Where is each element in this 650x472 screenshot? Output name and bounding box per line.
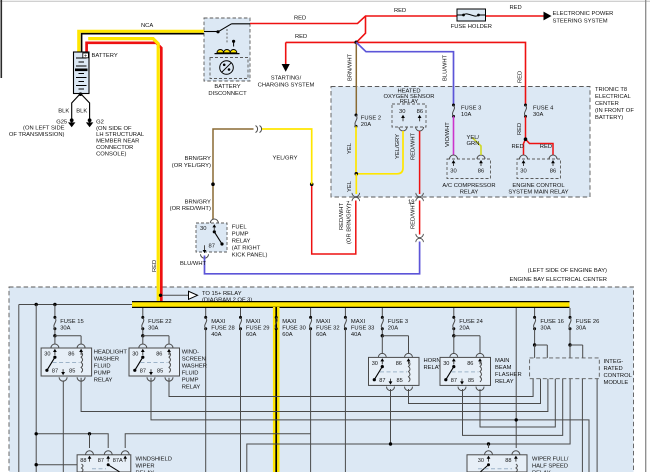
wire hw87 down <box>62 381 64 472</box>
svg-text:PUMP: PUMP <box>182 378 199 384</box>
svg-text:60A: 60A <box>316 332 326 338</box>
svg-text:KICK PANEL): KICK PANEL) <box>232 253 268 259</box>
wire icm pin7 down <box>581 379 583 472</box>
svg-text:RED: RED <box>152 260 158 272</box>
svg-text:87: 87 <box>52 368 58 374</box>
svg-text:YEL: YEL <box>347 180 353 192</box>
svg-text:30: 30 <box>372 361 378 367</box>
svg-text:BLU/WHT: BLU/WHT <box>443 54 449 81</box>
svg-text:HALF SPEED: HALF SPEED <box>532 463 568 469</box>
fuse maxi F28 40A <box>204 308 235 472</box>
node yel junction <box>355 172 359 176</box>
wire windshield wiper feed rail <box>36 434 108 448</box>
svg-text:30A: 30A <box>60 325 70 331</box>
svg-text:HEADLIGHT: HEADLIGHT <box>94 350 128 356</box>
svg-text:MAXI: MAXI <box>211 319 226 325</box>
svg-text:ELECTRONIC POWER: ELECTRONIC POWER <box>553 11 614 17</box>
svg-text:RED: RED <box>394 8 406 14</box>
svg-text:(OR BRN/GRY): (OR BRN/GRY) <box>347 203 353 244</box>
svg-text:YEL/GRY: YEL/GRY <box>272 155 297 161</box>
wire NCA yellow battery to disconnect <box>79 31 204 52</box>
svg-text:30: 30 <box>399 109 405 115</box>
svg-text:(OR RED/WHT): (OR RED/WHT) <box>170 206 211 212</box>
relay K3 horn relay <box>381 334 384 337</box>
svg-text:SYSTEM MAIN RELAY: SYSTEM MAIN RELAY <box>508 190 568 196</box>
svg-text:86: 86 <box>156 352 162 358</box>
node wiper30 junction <box>487 442 490 445</box>
battery disconnect switch <box>204 31 217 33</box>
svg-text:CONSOLE): CONSOLE) <box>96 151 126 157</box>
svg-text:87: 87 <box>451 378 457 384</box>
fuse F2 20A <box>355 114 358 117</box>
svg-text:FUSE 26: FUSE 26 <box>576 319 600 325</box>
svg-text:FUSE 3: FUSE 3 <box>461 106 481 112</box>
svg-text:20A: 20A <box>459 325 469 331</box>
bus 30-supply yellow <box>132 301 570 308</box>
svg-text:87: 87 <box>140 368 146 374</box>
svg-text:86: 86 <box>467 361 473 367</box>
battery disconnect motor box <box>210 58 248 79</box>
svg-text:87: 87 <box>98 458 104 464</box>
svg-text:60A: 60A <box>282 332 292 338</box>
fuse F15 30A <box>53 305 83 336</box>
battery plus terminal <box>83 53 89 58</box>
engine bay electrical center box <box>9 287 634 472</box>
wire horn87 rail to icm pin6 <box>247 379 570 472</box>
connector inline brn/gry-yel/gry <box>256 126 258 133</box>
svg-text:RELAY: RELAY <box>495 379 514 385</box>
relay U-hosr heated oxygen sensor relay box <box>392 104 426 127</box>
svg-text:30: 30 <box>478 458 484 464</box>
relay U-ecsm engine control system main relay terminals <box>517 159 561 179</box>
ground G2 <box>88 118 92 122</box>
node bus feed fuse15 <box>53 303 56 306</box>
svg-text:DISCONNECT: DISCONNECT <box>208 91 247 97</box>
svg-text:(AT RIGHT: (AT RIGHT <box>232 246 261 252</box>
relay K1 headlight washer fluid pump relay <box>53 334 56 337</box>
wire ww85 to icm pin1 <box>169 378 533 397</box>
svg-text:TO 15+ RELAY: TO 15+ RELAY <box>202 291 242 297</box>
svg-text:86: 86 <box>550 169 556 175</box>
fuse F22 30A <box>141 308 171 336</box>
svg-text:30: 30 <box>443 361 449 367</box>
wire red junction riser <box>356 16 365 42</box>
svg-text:30: 30 <box>450 169 456 175</box>
svg-text:40A: 40A <box>211 332 221 338</box>
svg-text:YEL: YEL <box>347 142 353 154</box>
svg-text:FUSE HOLDER: FUSE HOLDER <box>451 24 492 30</box>
svg-text:WIPER FULL/: WIPER FULL/ <box>532 456 569 462</box>
svg-text:FUSE 28: FUSE 28 <box>211 325 235 331</box>
svg-text:30: 30 <box>200 226 206 232</box>
svg-text:BRN/GRY: BRN/GRY <box>185 156 211 162</box>
wire second rail down to wiper relay net <box>35 305 37 472</box>
wire horn87 down <box>390 389 392 444</box>
svg-text:HORN: HORN <box>424 358 441 364</box>
svg-text:FLUID: FLUID <box>94 364 111 370</box>
relay U-ac a/c compressor relay terminals <box>447 159 491 179</box>
wire bus to wiper relay 88 <box>515 308 517 448</box>
svg-text:85: 85 <box>157 368 163 374</box>
wire red battery feed down to engine bay bus <box>87 43 162 306</box>
fuse maxi F29 60A <box>239 308 270 472</box>
wire yel/gry hosr 30 to yel junction <box>356 131 403 174</box>
svg-text:FLASHER: FLASHER <box>495 372 522 378</box>
wire red/wht pin7 down and left <box>312 184 356 254</box>
svg-text:RED: RED <box>518 71 524 83</box>
battery disconnect motor <box>220 61 234 75</box>
svg-text:MAXI: MAXI <box>351 319 366 325</box>
svg-text:BATTERY: BATTERY <box>214 84 240 90</box>
svg-text:SCREEN: SCREEN <box>182 357 206 363</box>
wire yellow maxi fuse 30 feed down <box>273 307 280 472</box>
wire mb87 to icm pin5 <box>463 379 563 436</box>
svg-text:BRN/GRY: BRN/GRY <box>185 199 211 205</box>
relay K6 wiper full/half speed relay <box>467 455 527 472</box>
svg-text:RELAY: RELAY <box>424 365 443 371</box>
svg-text:RED/WHT: RED/WHT <box>339 202 345 230</box>
wire NCA black stripe <box>82 34 204 53</box>
svg-text:WIND-: WIND- <box>182 350 199 356</box>
wire red junction to starting/charging branch <box>286 41 357 43</box>
wire ww87 to wiper relay 88 rail <box>151 378 589 472</box>
svg-text:GRN: GRN <box>467 141 480 147</box>
fuse F3b 20A <box>381 308 408 336</box>
wire yel/gry up and left <box>261 129 312 184</box>
svg-text:85: 85 <box>69 368 75 374</box>
svg-text:30: 30 <box>132 352 138 358</box>
svg-text:20A: 20A <box>361 122 371 128</box>
svg-text:FUSE 16: FUSE 16 <box>540 319 564 325</box>
fuse maxi F30 60A <box>275 316 306 338</box>
wire red/wht hosr 86 to pin 19 <box>419 131 421 194</box>
svg-text:FUSE 29: FUSE 29 <box>246 325 270 331</box>
svg-text:FUSE 15: FUSE 15 <box>60 319 84 325</box>
svg-text:OF TRANSMISSION): OF TRANSMISSION) <box>9 132 65 138</box>
svg-text:BATTERY: BATTERY <box>92 53 118 59</box>
svg-text:(ON SIDE OF: (ON SIDE OF <box>96 126 132 132</box>
svg-text:ENGINE BAY ELECTRICAL CENTER: ENGINE BAY ELECTRICAL CENTER <box>510 277 608 283</box>
svg-text:RED: RED <box>517 123 523 135</box>
wire yel fuse2 down <box>355 126 357 174</box>
svg-text:86: 86 <box>396 361 402 367</box>
svg-text:30: 30 <box>520 169 526 175</box>
svg-text:BLK: BLK <box>58 109 69 115</box>
node brn/gry splice <box>211 182 215 186</box>
svg-text:FUSE 32: FUSE 32 <box>316 325 340 331</box>
wire red fuse4 to ecsm relay <box>525 116 527 139</box>
svg-text:(ON LEFT SIDE: (ON LEFT SIDE <box>23 126 65 132</box>
wire icm pin8 down <box>596 379 598 472</box>
svg-text:88: 88 <box>505 458 511 464</box>
fuse F16 30A <box>533 308 564 345</box>
wire brn/gry left and down to fuel pump relay <box>213 129 254 219</box>
wire horn85 to icm pin2 <box>409 379 541 404</box>
svg-text:TRIONIC T8: TRIONIC T8 <box>595 87 627 93</box>
svg-text:FLUID: FLUID <box>182 371 199 377</box>
node wiper88 junction <box>515 418 518 421</box>
battery disconnect heater coil <box>217 49 237 52</box>
svg-text:RED: RED <box>294 16 306 22</box>
fuse F24 20A <box>452 308 483 336</box>
frame line left <box>0 0 2 78</box>
svg-text:STEERING SYSTEM: STEERING SYSTEM <box>553 19 608 25</box>
svg-text:FUSE 2: FUSE 2 <box>361 115 381 121</box>
wire left rail down <box>18 305 20 472</box>
fuse maxi F33 40A <box>344 308 375 472</box>
connector pin 19 trionic bottom <box>416 193 424 197</box>
svg-text:85: 85 <box>397 378 403 384</box>
svg-text:CONTROL: CONTROL <box>604 373 633 379</box>
ground G25 <box>70 118 74 122</box>
battery B1 <box>74 52 90 94</box>
module U-icm integrated control module <box>530 358 600 379</box>
wire red/wht pin19 down <box>419 201 421 235</box>
wire yel junction to pin 7 <box>355 174 357 194</box>
svg-text:(LEFT SIDE OF ENGINE BAY): (LEFT SIDE OF ENGINE BAY) <box>528 268 607 274</box>
svg-text:CONNECTOR: CONNECTOR <box>96 145 133 151</box>
wire blu/wht junction to fuse 3 <box>356 42 453 105</box>
svg-text:RED/WHT: RED/WHT <box>410 201 416 229</box>
integrated control module feeds <box>533 343 536 346</box>
svg-text:PUMP: PUMP <box>94 371 111 377</box>
fuse maxi F32 60A <box>309 308 340 472</box>
svg-text:(IN FRONT OF: (IN FRONT OF <box>595 108 634 114</box>
arrow to electronic power steering system <box>544 12 552 21</box>
svg-text:10A: 10A <box>461 112 471 118</box>
svg-text:NCA: NCA <box>141 23 153 29</box>
svg-text:RELAY: RELAY <box>94 378 113 384</box>
svg-text:VIO/WHT: VIO/WHT <box>445 122 451 147</box>
svg-text:RED/WHT: RED/WHT <box>411 132 417 160</box>
connector inline red/wht-blu/wht <box>416 234 424 238</box>
arrow to starting/charging system <box>282 64 290 72</box>
frame line right <box>645 0 647 472</box>
svg-text:30: 30 <box>44 352 50 358</box>
battery disconnect box outline <box>204 18 250 81</box>
wire vio/wht fuse3 to ac relay 30 <box>453 116 455 155</box>
wire black battery negative to grounds <box>72 94 81 120</box>
svg-text:RATED: RATED <box>604 366 623 372</box>
svg-text:PUMP: PUMP <box>232 232 249 238</box>
svg-text:30A: 30A <box>576 325 586 331</box>
svg-text:BATTERY): BATTERY) <box>595 115 623 121</box>
svg-text:85: 85 <box>468 378 474 384</box>
svg-text:FUSE 3: FUSE 3 <box>388 319 408 325</box>
wire windshield 87A link <box>125 434 310 448</box>
fuse F4 30A <box>524 104 527 107</box>
node main red junction <box>354 41 358 45</box>
svg-text:RED: RED <box>540 144 552 150</box>
fuse F3 10A <box>452 104 455 107</box>
relay K4 main beam flasher relay <box>452 334 455 337</box>
node yel/gry to red/wht splice <box>310 182 314 186</box>
node windshield 88 tap <box>88 432 91 435</box>
trionic T8 electrical center box <box>331 87 590 198</box>
svg-text:LH STRUCTURAL: LH STRUCTURAL <box>96 132 145 138</box>
svg-text:87: 87 <box>209 243 215 249</box>
svg-text:20A: 20A <box>388 325 398 331</box>
svg-text:86: 86 <box>478 169 484 175</box>
svg-text:WINDSHIELD: WINDSHIELD <box>136 456 172 462</box>
svg-text:A/C COMPRESSOR: A/C COMPRESSOR <box>442 183 495 189</box>
svg-text:BRN/WHT: BRN/WHT <box>348 53 354 81</box>
svg-text:YEL/: YEL/ <box>467 135 480 141</box>
svg-text:FUSE 33: FUSE 33 <box>351 325 375 331</box>
svg-text:RELAY: RELAY <box>182 385 201 391</box>
svg-text:ELECTRICAL: ELECTRICAL <box>595 94 632 100</box>
svg-text:CHARGING SYSTEM: CHARGING SYSTEM <box>258 83 315 89</box>
svg-text:G2: G2 <box>96 119 104 125</box>
fuse holder <box>457 9 486 21</box>
wire hw85 to icm pin3 <box>81 378 548 412</box>
svg-text:RED: RED <box>512 144 524 150</box>
wire mb85 to icm pin4 <box>480 379 555 427</box>
svg-text:86: 86 <box>68 352 74 358</box>
wire red disconnect to EPS top rail <box>250 16 457 24</box>
svg-text:INTEG-: INTEG- <box>604 359 624 365</box>
svg-text:FUSE 24: FUSE 24 <box>459 319 483 325</box>
svg-text:86: 86 <box>417 109 423 115</box>
svg-text:FUSE 4: FUSE 4 <box>533 106 554 112</box>
connector pin 7 trionic bottom <box>352 193 360 197</box>
svg-text:BLU/WHT: BLU/WHT <box>180 261 207 267</box>
svg-text:40A: 40A <box>351 332 361 338</box>
svg-text:YEL/GRY: YEL/GRY <box>395 134 401 159</box>
offpage triangle to 15+ relay <box>189 291 198 299</box>
svg-text:MAIN: MAIN <box>495 358 510 364</box>
svg-text:WASHER: WASHER <box>182 364 207 370</box>
wire wiper relay 30 up <box>488 444 490 448</box>
wire yellow battery feed down to engine bay bus <box>88 39 158 306</box>
svg-text:MEMBER NEAR: MEMBER NEAR <box>96 139 139 145</box>
svg-text:MODULE: MODULE <box>604 380 629 386</box>
svg-text:30A: 30A <box>148 325 158 331</box>
svg-text:FUSE 22: FUSE 22 <box>148 319 172 325</box>
relay K-fp fuel pump relay <box>196 223 227 252</box>
node bus feed left rail <box>35 303 38 306</box>
svg-text:30A: 30A <box>540 325 550 331</box>
svg-text:WIPER: WIPER <box>136 463 155 469</box>
svg-text:RED: RED <box>510 5 522 11</box>
svg-text:FUEL: FUEL <box>232 225 248 231</box>
node fuse4 split <box>524 137 528 141</box>
wire to 15+ relay tap <box>161 294 189 296</box>
wire red junction to fuse 4 <box>356 42 525 105</box>
svg-text:87: 87 <box>379 378 385 384</box>
wire brn/wht junction to fuse 2 <box>355 42 357 115</box>
svg-text:RELAY: RELAY <box>232 239 251 245</box>
wire blu/wht to fuel pump relay 87 <box>205 242 420 274</box>
svg-text:RELAY: RELAY <box>460 190 479 196</box>
wire yel/grn from ac relay 86 <box>473 138 482 155</box>
svg-text:MAXI: MAXI <box>246 319 261 325</box>
frame line top <box>0 0 650 2</box>
svg-text:G25: G25 <box>56 119 67 125</box>
wire lower left link <box>36 464 77 466</box>
svg-text:CENTER: CENTER <box>595 101 619 107</box>
svg-text:60A: 60A <box>246 332 256 338</box>
svg-text:MAXI: MAXI <box>316 319 331 325</box>
svg-text:(OR YEL/GRY): (OR YEL/GRY) <box>172 163 211 169</box>
svg-text:ENGINE CONTROL: ENGINE CONTROL <box>512 183 565 189</box>
svg-text:STARTING/: STARTING/ <box>271 76 302 82</box>
fuse F26 30A <box>569 308 600 345</box>
svg-text:BEAM: BEAM <box>495 365 512 371</box>
svg-text:FUSE 30: FUSE 30 <box>282 325 306 331</box>
svg-text:30A: 30A <box>533 112 543 118</box>
relay K2 windscreen washer fluid pump relay <box>141 334 144 337</box>
svg-text:87A: 87A <box>113 458 123 464</box>
svg-text:+: + <box>84 53 87 59</box>
svg-text:88: 88 <box>80 458 86 464</box>
svg-text:BLK: BLK <box>76 109 87 115</box>
relay K5 windshield wiper relay <box>77 455 131 472</box>
svg-text:RED: RED <box>295 34 307 40</box>
wire bus feed line left <box>19 304 133 306</box>
svg-text:WASHER: WASHER <box>94 357 119 363</box>
svg-text:MAXI: MAXI <box>282 319 297 325</box>
